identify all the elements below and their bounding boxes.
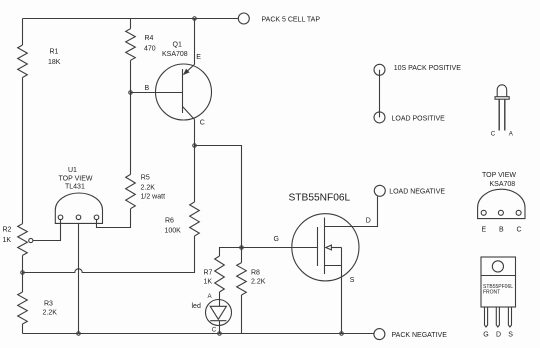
wire emitter feed <box>194 19 196 65</box>
svg-text:2.2K: 2.2K <box>141 185 156 192</box>
svg-text:C: C <box>491 131 496 138</box>
terminal PACK 5 CELL TAP <box>238 13 249 24</box>
svg-text:G: G <box>483 331 488 338</box>
svg-text:2.2K: 2.2K <box>251 279 266 286</box>
led package drawing <box>495 85 509 99</box>
svg-text:R3: R3 <box>44 301 53 308</box>
svg-text:C: C <box>212 327 217 334</box>
node B junction <box>129 91 133 95</box>
wire U1 pin2 to bottom rail <box>78 223 80 333</box>
wire collector to R6 <box>194 146 196 203</box>
svg-text:R7: R7 <box>204 270 213 277</box>
wire R7 to led anode <box>219 292 221 300</box>
wire R3 bottom to rail <box>22 324 24 334</box>
svg-text:1/2 watt: 1/2 watt <box>141 194 166 201</box>
resistor R6 <box>190 202 200 236</box>
wire node B to R5 <box>130 93 132 175</box>
node top rail junction <box>193 17 197 21</box>
svg-text:STB55NF06L: STB55NF06L <box>289 193 351 204</box>
resistor R3 <box>18 292 28 324</box>
ksa708 package top view <box>478 189 525 218</box>
wire R5 bottom to U1 pin3 <box>97 209 131 228</box>
svg-text:E: E <box>196 54 201 61</box>
svg-text:R5: R5 <box>141 175 150 182</box>
wire between positive terminals <box>379 70 381 118</box>
wire bottom rail <box>23 333 374 335</box>
svg-text:R6: R6 <box>165 217 174 224</box>
terminal LOAD POSITIVE <box>374 112 385 123</box>
wire R4 top lead <box>130 19 132 29</box>
wire R1 to R2 <box>22 78 24 224</box>
svg-text:R8: R8 <box>251 270 260 277</box>
svg-text:PACK NEGATIVE: PACK NEGATIVE <box>392 332 448 339</box>
node junction left mid <box>21 271 25 275</box>
node collector junction <box>193 144 197 148</box>
terminal LOAD NEGATIVE <box>374 185 385 196</box>
wiper of R2 <box>29 238 33 242</box>
svg-text:100K: 100K <box>165 227 182 234</box>
svg-text:C: C <box>517 227 522 234</box>
led D1 <box>206 300 232 334</box>
wire collector <box>194 120 196 146</box>
wire R2 to node <box>22 255 24 272</box>
resistor R8 <box>237 263 247 295</box>
terminal 10S PACK POSITIVE <box>374 64 385 75</box>
svg-text:D: D <box>366 218 371 225</box>
svg-text:R1: R1 <box>50 49 59 56</box>
stb package drawing front view <box>481 257 516 327</box>
svg-text:B: B <box>499 227 504 234</box>
wire top rail <box>23 18 239 20</box>
wire node to R8 <box>241 248 243 263</box>
svg-text:2.2K: 2.2K <box>43 310 58 317</box>
potentiometer R2 <box>18 224 28 256</box>
svg-text:TL431: TL431 <box>65 184 85 191</box>
tl431 U1 package top view <box>55 193 102 223</box>
svg-text:KSA708: KSA708 <box>162 51 188 58</box>
svg-text:470: 470 <box>144 46 156 53</box>
svg-text:KSA708: KSA708 <box>490 181 516 188</box>
svg-text:B: B <box>145 85 150 92</box>
svg-text:U1: U1 <box>68 167 77 174</box>
svg-text:Q1: Q1 <box>173 42 182 49</box>
svg-text:TOP VIEW: TOP VIEW <box>59 175 93 182</box>
svg-text:LOAD POSITIVE: LOAD POSITIVE <box>392 116 446 123</box>
svg-text:C: C <box>200 120 205 127</box>
resistor R5 <box>126 174 136 208</box>
svg-text:S: S <box>508 331 513 338</box>
svg-text:R2: R2 <box>3 227 12 234</box>
svg-text:1K: 1K <box>204 279 213 286</box>
wire R4 to node B <box>130 60 132 92</box>
wire R6 bottom to left node with hop <box>23 236 195 273</box>
resistor R7 <box>215 256 225 292</box>
svg-text:led: led <box>192 303 201 310</box>
node source junction <box>340 332 344 336</box>
svg-text:FRONT: FRONT <box>483 290 500 296</box>
wire gate <box>220 248 318 257</box>
svg-text:PACK 5 CELL TAP: PACK 5 CELL TAP <box>262 17 321 24</box>
terminal PACK NEGATIVE <box>374 329 385 340</box>
svg-text:10S PACK POSITIVE: 10S PACK POSITIVE <box>394 65 462 72</box>
transistor Q1 <box>156 64 212 120</box>
svg-text:TOP VIEW: TOP VIEW <box>482 172 516 179</box>
svg-text:E: E <box>482 227 487 234</box>
svg-text:R4: R4 <box>145 35 154 42</box>
svg-text:S: S <box>350 277 355 284</box>
wire R8 bottom to rail <box>241 295 243 334</box>
svg-text:D: D <box>496 331 501 338</box>
mosfet Q2 STB55NF06L <box>292 197 378 334</box>
node pin2 rail junction <box>77 332 81 336</box>
svg-text:18K: 18K <box>48 59 61 66</box>
svg-text:LOAD NEGATIVE: LOAD NEGATIVE <box>389 188 445 195</box>
node led cathode junction <box>218 332 222 336</box>
node gate junction <box>240 246 244 250</box>
svg-text:G: G <box>274 236 279 243</box>
resistor R1 <box>18 45 28 78</box>
wire base <box>131 92 183 94</box>
resistor R4 <box>126 29 136 61</box>
wire R1 top lead <box>22 19 24 46</box>
wire collector to gate column <box>195 146 242 248</box>
wire R3 top lead <box>22 273 24 293</box>
svg-text:1K: 1K <box>3 237 12 244</box>
